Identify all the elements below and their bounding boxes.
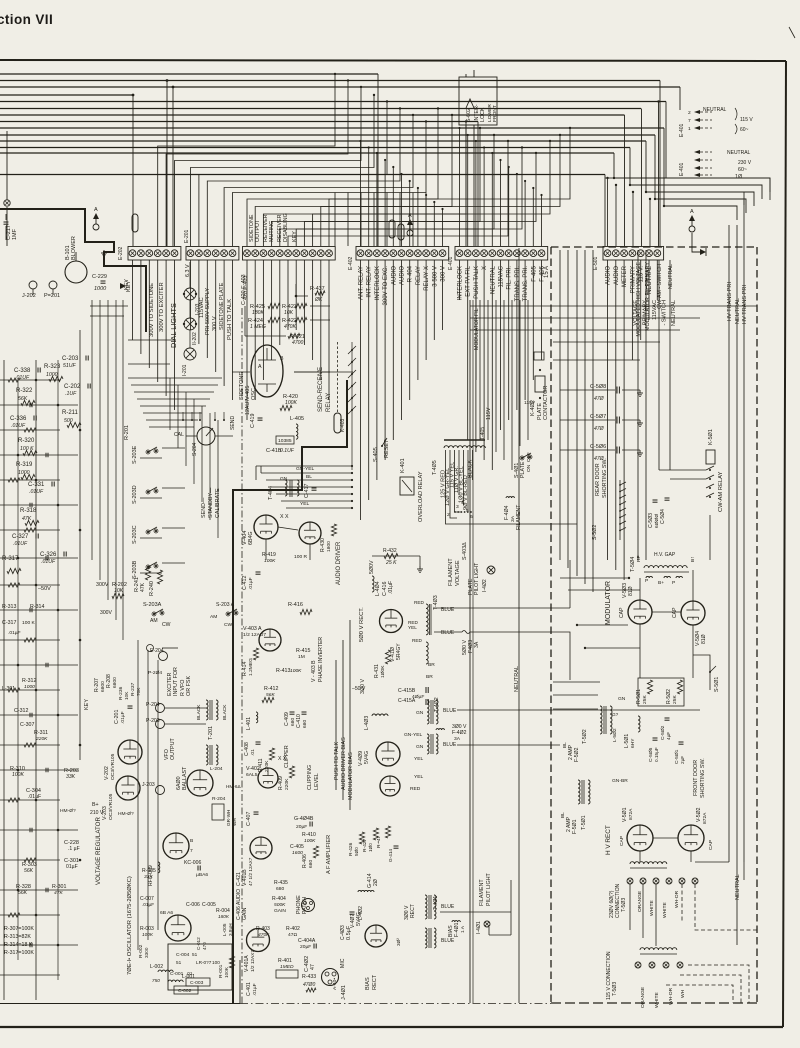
svg-text:BL: BL [562, 742, 567, 748]
wire bus line [0, 101, 666, 103]
svg-text:METER: METER [622, 265, 628, 287]
svg-text:100K: 100K [290, 668, 302, 674]
svg-text:R-433: R-433 [302, 974, 316, 980]
svg-text:RED: RED [412, 638, 423, 643]
svg-text:25K: 25K [642, 695, 648, 704]
svg-text:R-208: R-208 [106, 674, 112, 688]
wire strip F feeders [605, 177, 614, 179]
wire [384, 260, 386, 460]
wire [162, 487, 185, 489]
wire [0, 609, 78, 611]
wire [90, 305, 128, 307]
wire bridge to strip [288, 141, 508, 246]
wire [162, 647, 178, 649]
svg-text:EXT PA FIL: EXT PA FIL [466, 265, 472, 296]
wire [294, 371, 353, 373]
svg-text:C-312: C-312 [14, 708, 28, 714]
chassis boundary thick [233, 380, 347, 1004]
svg-text:FILAMENT: FILAMENT [479, 879, 485, 906]
wire drop to terminal [500, 160, 502, 246]
relay contact [351, 397, 353, 399]
svg-text:F-5Ø2: F-5Ø2 [574, 747, 580, 762]
wire [262, 260, 264, 380]
svg-text:WHITE: WHITE [662, 902, 668, 918]
svg-text:C-419: C-419 [250, 414, 256, 428]
wire modulator fil [645, 250, 647, 560]
wire [0, 639, 60, 641]
svg-text:A: A [94, 207, 98, 213]
svg-text:C-401: C-401 [246, 982, 252, 996]
svg-text:VOLTAGE REGULATOR: VOLTAGE REGULATOR [95, 817, 102, 885]
svg-text:VOLTAGE: VOLTAGE [455, 560, 461, 586]
tube V-407 bias rect [365, 925, 387, 947]
wire bus line [0, 134, 655, 136]
svg-text:J-4Ø1: J-4Ø1 [341, 985, 347, 1000]
wire [368, 260, 370, 500]
wire bridge to strip [166, 81, 348, 247]
wire staircase [630, 148, 762, 200]
svg-text:KEY: KEY [84, 699, 90, 710]
svg-text:C-417: C-417 [304, 484, 310, 498]
wire [433, 260, 435, 340]
wire [0, 714, 78, 716]
wire [372, 555, 420, 557]
wire drop to terminal [386, 193, 388, 247]
tube V-403A [259, 629, 281, 651]
connector capsule [389, 220, 395, 238]
svg-text:R-419: R-419 [262, 552, 276, 558]
tube V-502 hv rect [678, 825, 704, 851]
wire [615, 260, 617, 570]
svg-text:PRI 500V SUPPLY: PRI 500V SUPPLY [205, 288, 211, 335]
wire thick key loop [104, 266, 146, 332]
svg-text:NEUTRAL: NEUTRAL [727, 150, 751, 156]
svg-text:NEUTRAL: NEUTRAL [735, 874, 741, 900]
tube V-405 sidetone osc [251, 345, 283, 397]
svg-text:MODULATED HIGH VOLTAGE: MODULATED HIGH VOLTAGE [636, 262, 642, 337]
svg-text:PUSH TALK: PUSH TALK [474, 266, 480, 299]
wire [640, 260, 642, 340]
wire [459, 260, 461, 300]
wire [623, 260, 625, 580]
junction dot [57, 714, 60, 717]
svg-text:LEVEL: LEVEL [314, 773, 320, 790]
capacitor (left edge) [29, 403, 31, 408]
svg-text:4µF: 4µF [666, 732, 671, 740]
tube V-202 regulator [118, 740, 142, 764]
svg-text:GN: GN [416, 710, 424, 716]
svg-text:µBA6: µBA6 [196, 872, 208, 878]
svg-text:H.V. GAP: H.V. GAP [654, 552, 676, 558]
svg-text:S-203C: S-203C [132, 525, 138, 544]
power supply dashed enclosure [551, 246, 757, 248]
junction dot [17, 557, 20, 560]
resistor (left edge) [8, 688, 20, 692]
box 10385 [276, 436, 294, 444]
svg-text:L-204: L-204 [210, 766, 223, 772]
svg-text:6.3 V: 6.3 V [185, 264, 191, 277]
chassis separator dash-dot [241, 308, 243, 1004]
svg-text:P=201: P=201 [44, 293, 60, 299]
wire r437 [296, 284, 308, 296]
svg-text:ON: ON [526, 464, 532, 472]
svg-text:.01µF: .01µF [252, 983, 258, 996]
svg-text:ction VII: ction VII [0, 12, 53, 27]
svg-text:S-203E: S-203E [132, 445, 138, 464]
svg-text:R-313=82K: R-313=82K [4, 934, 31, 940]
svg-text:C-5Ø3: C-5Ø3 [648, 513, 654, 528]
svg-text:G-4Ø4B: G-4Ø4B [294, 816, 314, 822]
svg-text:ANT. RELAY: ANT. RELAY [359, 266, 365, 300]
wire [0, 799, 60, 801]
wire [0, 404, 78, 406]
svg-text:R-431: R-431 [374, 664, 380, 678]
wire bridge to strip [199, 102, 387, 247]
svg-text:100 K: 100 K [22, 620, 36, 626]
svg-text:C-229: C-229 [92, 274, 107, 280]
tube ballast 6A30 [187, 770, 213, 796]
wire drop to terminal [373, 193, 375, 247]
svg-text:1M: 1M [298, 654, 305, 660]
wire bus line [0, 86, 680, 88]
svg-text:R-404: R-404 [272, 896, 286, 902]
wire feeder [140, 405, 206, 407]
svg-text:R-410: R-410 [302, 832, 316, 838]
wire bus line [0, 94, 133, 96]
junction dot [35, 479, 38, 482]
svg-text:.1UF: .1UF [65, 391, 77, 397]
svg-text:115V: 115V [524, 400, 536, 406]
svg-text:0.1UF: 0.1UF [280, 448, 295, 454]
junction dot [35, 799, 38, 802]
svg-text:GR-WH: GR-WH [226, 810, 231, 826]
svg-text:J-202: J-202 [22, 293, 36, 299]
ground caps [639, 390, 641, 393]
svg-text:A F AMPLIFIER: A F AMPLIFIER [326, 835, 332, 874]
wire to relay [256, 465, 352, 467]
svg-text:SEND: SEND [230, 416, 236, 430]
wire [467, 260, 469, 440]
wire [206, 260, 208, 358]
wire left edge vertical [17, 380, 19, 960]
svg-text:TRANS. PRI.: TRANS. PRI. [523, 266, 529, 302]
wire [165, 260, 167, 396]
wire [659, 469, 706, 471]
wire drop to terminal [483, 148, 485, 247]
svg-text:RF: RF [636, 555, 642, 562]
lane wire [91, 300, 93, 560]
svg-text:C-409: C-409 [284, 712, 290, 726]
wire [255, 466, 257, 480]
wire hv leads [695, 861, 729, 863]
wire [320, 260, 322, 380]
wire bus line [0, 140, 646, 142]
svg-text:C-5Ø4: C-5Ø4 [660, 509, 666, 524]
svg-text:NEUTRAL: NEUTRAL [671, 300, 677, 326]
svg-text:750: 750 [152, 978, 160, 983]
svg-text:OVERLOAD RELAY: OVERLOAD RELAY [418, 471, 424, 522]
svg-text:S-5Ø2: S-5Ø2 [592, 525, 598, 540]
tube V-408 [380, 776, 400, 796]
svg-text:YEL: YEL [414, 756, 424, 762]
tap wires T-405 [445, 450, 447, 500]
wire grid feed 4 [585, 647, 640, 649]
svg-text:CW-AM - SWITCH: CW-AM - SWITCH [657, 264, 663, 309]
svg-text:R-5Ø2: R-5Ø2 [666, 689, 672, 704]
svg-text:56K: 56K [18, 890, 28, 896]
wire [656, 260, 658, 300]
svg-text:7ØE-I• OSCILLATOR (1675-2Ø5ØKC: 7ØE-I• OSCILLATOR (1675-2Ø5ØKC) [127, 876, 133, 975]
junction dot [79, 859, 82, 862]
svg-text:SHORTING SW.: SHORTING SW. [700, 758, 706, 798]
svg-text:RED: RED [410, 786, 421, 792]
wire drop to terminal [607, 178, 609, 246]
wire bridge to strip [207, 109, 400, 247]
svg-text:T-5Ø2: T-5Ø2 [582, 729, 588, 744]
resistor (left edge) [24, 638, 36, 642]
capacitor (left edge) [29, 943, 31, 948]
resistor (left edge) [24, 528, 36, 532]
svg-text:PILOT LIGHT: PILOT LIGHT [474, 562, 480, 595]
svg-text:T-404: T-404 [268, 486, 274, 500]
svg-text:BLUE: BLUE [441, 938, 455, 944]
svg-text:R-414: R-414 [242, 662, 248, 676]
svg-text:F-405: F-405 [531, 265, 537, 281]
wire [0, 914, 60, 916]
relay contact [351, 409, 353, 411]
wire drop to terminal [417, 188, 419, 246]
svg-text:PLATE: PLATE [520, 461, 526, 478]
svg-text:K-5Ø1: K-5Ø1 [708, 429, 714, 445]
tube V-401B [250, 837, 272, 859]
svg-text:T-5Ø3: T-5Ø3 [621, 898, 627, 912]
svg-text:SHORTING SW.: SHORTING SW. [602, 458, 608, 498]
wire to relay [281, 500, 352, 502]
wire [0, 479, 60, 481]
wire bridge to strip [296, 148, 522, 247]
svg-text:HM-6Δ: HM-6Δ [226, 784, 241, 789]
wire bus line [0, 152, 614, 154]
wire k-501 to caps [709, 515, 711, 560]
svg-text:R-301: R-301 [52, 884, 66, 890]
svg-text:5R4GY: 5R4GY [396, 643, 402, 660]
svg-text:BLOWER: BLOWER [71, 236, 77, 260]
wire [90, 315, 124, 317]
wire [265, 539, 267, 560]
wire neutral [736, 225, 738, 945]
wire left edge vertical [57, 360, 59, 980]
svg-text:CW: CW [224, 622, 233, 628]
wire drop to terminal [524, 181, 526, 246]
svg-text:R-320: R-320 [18, 438, 35, 444]
svg-text:L-401: L-401 [246, 717, 252, 730]
wire [470, 305, 757, 307]
switch S-602 interlock [459, 77, 497, 125]
svg-text:.01UF: .01UF [13, 541, 28, 547]
svg-text:5Ø0 V RECT.: 5Ø0 V RECT. [359, 607, 365, 642]
svg-text:3 500 V: 3 500 V [432, 266, 438, 287]
resistor (left edge) [24, 858, 36, 862]
terminal E-205 [147, 645, 154, 652]
svg-text:BLUE: BLUE [443, 742, 457, 748]
svg-text:680: 680 [276, 886, 284, 892]
wire cw-am [658, 260, 660, 470]
svg-text:YEL: YEL [300, 501, 310, 507]
svg-text:S-203D: S-203D [132, 485, 138, 504]
wire [483, 260, 485, 460]
lane wire [107, 300, 109, 600]
svg-text:R-402: R-402 [286, 926, 300, 932]
capacitor (left edge) [29, 828, 31, 833]
svg-text:1 MEG: 1 MEG [250, 324, 266, 330]
wire drop to terminal [491, 153, 493, 246]
svg-text:I-201: I-201 [182, 364, 188, 376]
capacitor (left edge) [29, 713, 31, 718]
svg-text:T-5Ø1: T-5Ø1 [581, 815, 587, 830]
svg-text:OR FSK: OR FSK [186, 676, 192, 696]
svg-text:GN: GN [618, 696, 626, 702]
svg-text:AUDIO: AUDIO [606, 266, 612, 285]
wire [244, 306, 246, 336]
svg-text:C-415A: C-415A [398, 698, 416, 704]
wire [312, 260, 314, 360]
svg-text:B: B [280, 356, 284, 362]
osc lane wire [157, 660, 159, 930]
wire [190, 260, 192, 330]
svg-text:6AL5: 6AL5 [246, 772, 258, 778]
wire bus line [0, 114, 625, 116]
wire bus line [0, 80, 660, 82]
svg-text:PUSH TO TALK: PUSH TO TALK [227, 299, 233, 340]
wire [0, 769, 78, 771]
wire drop to terminal [360, 193, 362, 247]
svg-text:56K: 56K [266, 692, 275, 698]
svg-text:SEND-RECEIVE: SEND-RECEIVE [318, 367, 324, 412]
wire [0, 379, 60, 381]
connector P-201 [49, 281, 57, 289]
svg-text:YEL: YEL [408, 625, 417, 630]
wire drop to terminal [475, 141, 477, 246]
svg-text:1.2MEG: 1.2MEG [248, 658, 254, 676]
wire [232, 371, 250, 373]
svg-text:BLACK: BLACK [196, 704, 201, 720]
wire bridge to strip [304, 153, 536, 246]
svg-text:C-407: C-407 [246, 812, 252, 826]
svg-text:5: 5 [466, 508, 469, 514]
wire hv trans pri [728, 225, 730, 862]
switch contacts [182, 419, 184, 421]
svg-text:WHITE: WHITE [649, 900, 655, 916]
wire [631, 260, 633, 360]
svg-text:1/2 12AU7: 1/2 12AU7 [243, 632, 266, 638]
svg-text:.1 µF: .1 µF [68, 846, 80, 852]
wire vertical [166, 81, 168, 247]
wire [500, 260, 502, 430]
wire to relay [261, 472, 352, 474]
wire [128, 363, 170, 365]
svg-text:1800: 1800 [326, 541, 332, 552]
svg-text:470K: 470K [284, 324, 296, 330]
wire vertical [185, 392, 187, 466]
svg-text:P-2Ø4: P-2Ø4 [148, 670, 162, 676]
svg-text:81Ø: 81Ø [628, 586, 634, 596]
svg-text:AUDIO: AUDIO [400, 266, 406, 285]
svg-text:100K: 100K [12, 772, 24, 778]
svg-text:C-012: C-012 [196, 937, 201, 950]
svg-text:47K: 47K [22, 516, 32, 522]
blower B-101 [65, 261, 87, 283]
wire [148, 260, 150, 368]
svg-text:CLIPPING: CLIPPING [307, 765, 313, 790]
svg-text:60~: 60~ [740, 127, 749, 133]
svg-text:R-240: R-240 [149, 581, 155, 596]
svg-text:47 1/2 12AX7: 47 1/2 12AX7 [248, 857, 253, 886]
wire staircase [646, 141, 754, 206]
svg-text:RED: RED [414, 600, 425, 605]
jack MIC [322, 969, 339, 986]
terminal E-204 [159, 652, 168, 661]
connector P-204 [156, 704, 165, 713]
svg-text:R-406: R-406 [302, 854, 308, 868]
wire [351, 342, 353, 470]
svg-text:2µF: 2µF [680, 756, 685, 764]
svg-text:YEL: YEL [414, 774, 424, 780]
wire push to talk [335, 660, 337, 790]
wire [162, 562, 185, 564]
svg-text:B↑: B↑ [690, 556, 696, 562]
transformer T-503 115V winding [640, 948, 677, 950]
junction dot [79, 529, 82, 532]
svg-text:10385: 10385 [278, 438, 292, 444]
svg-text:BLUE: BLUE [441, 904, 455, 910]
wire to relay [266, 479, 352, 481]
svg-text:4700: 4700 [292, 340, 303, 346]
svg-text:C-003: C-003 [190, 980, 204, 986]
svg-text:R-317=100K: R-317=100K [4, 950, 34, 956]
svg-text:P-204: P-204 [146, 702, 160, 708]
svg-text:.01µF: .01µF [28, 794, 41, 800]
svg-text:KEY: KEY [126, 281, 132, 292]
wire [553, 341, 660, 343]
wire neutral [669, 260, 671, 470]
terminal strip E-402 [356, 247, 449, 261]
wire drop to terminal [334, 193, 336, 247]
svg-text:AUDIO DRIVER: AUDIO DRIVER [336, 541, 342, 585]
wire [409, 260, 411, 400]
wire to relay [286, 507, 352, 509]
svg-text:R-317: R-317 [2, 556, 19, 562]
svg-text:RELAY: RELAY [326, 393, 332, 412]
svg-text:47Ø: 47Ø [594, 426, 605, 432]
wire drop from bus [641, 109, 643, 247]
svg-text:MUTING: MUTING [269, 221, 275, 242]
tube V-402 [258, 768, 278, 788]
wire bus line [0, 174, 605, 176]
svg-text:NEUTRAL: NEUTRAL [514, 666, 520, 692]
schematic border frame bottom [0, 1026, 783, 1028]
wire vertical [6, 207, 8, 246]
capacitor (left edge) [29, 503, 31, 508]
wire [392, 260, 394, 440]
relay contact [351, 373, 353, 375]
svg-text:S-204: S-204 [192, 442, 198, 456]
svg-text:WH: WH [232, 818, 237, 826]
svg-text:F-4Ø1: F-4Ø1 [454, 922, 460, 937]
svg-text:R-415: R-415 [296, 648, 310, 654]
wire [0, 859, 60, 861]
wire [607, 260, 609, 560]
connector J-202 [29, 281, 37, 289]
